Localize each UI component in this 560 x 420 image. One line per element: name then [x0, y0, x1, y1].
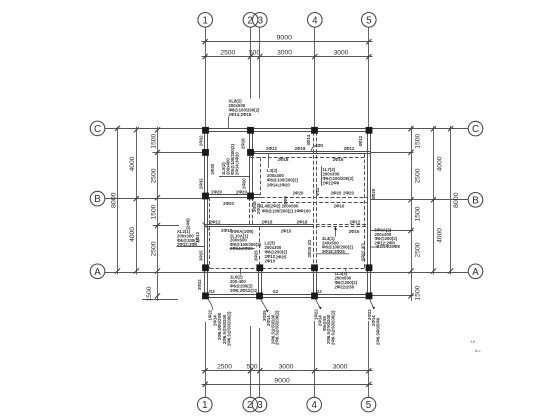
- rebar tag 2phi20 above B beam left: [211, 190, 222, 195]
- svg-text:2500: 2500: [415, 168, 422, 183]
- dim line 8000 left: [110, 126, 120, 275]
- dim line 9000 top: [202, 35, 373, 45]
- annotation block outside right wall with leader: [371, 228, 401, 250]
- svg-text:2Φ32: 2Φ32: [199, 178, 204, 189]
- svg-text:2500: 2500: [150, 168, 157, 183]
- svg-text:4: 4: [311, 400, 317, 411]
- axis circle 2 bottom: [243, 397, 258, 412]
- annotation block bottom strip left: [230, 268, 258, 293]
- axis circle 1 bottom: [198, 397, 213, 412]
- annotation block room 3-4 lower: [265, 241, 288, 264]
- svg-text:3Φ25 3/2: 3Φ25 3/2: [307, 239, 312, 257]
- annotation two-line room 3-4 below B: [260, 204, 312, 214]
- svg-text:2Φ20: 2Φ20: [210, 163, 215, 174]
- tag 3phi25 outside left wall: [199, 250, 204, 261]
- svg-text:3000: 3000: [333, 364, 348, 371]
- svg-text:Φ12: Φ12: [315, 187, 320, 196]
- svg-text:1: 1: [202, 15, 207, 26]
- svg-text:2Φ18: 2Φ18: [240, 138, 245, 149]
- axis line B left: [105, 198, 204, 200]
- column C-1: [202, 127, 209, 134]
- bottom leader group 3: [314, 299, 336, 345]
- hidden beam axis 3 lower: [259, 227, 261, 268]
- axis circle A left: [90, 264, 105, 279]
- column A-3: [256, 264, 263, 271]
- column bottom-3: [256, 293, 263, 300]
- G2 label right: [316, 289, 322, 294]
- svg-text:3000: 3000: [279, 364, 294, 371]
- hidden beam below r1: [251, 157, 367, 159]
- svg-text:4000: 4000: [437, 228, 444, 243]
- svg-text:C: C: [472, 124, 479, 135]
- svg-text:2Φ18: 2Φ18: [262, 219, 273, 224]
- axis line A left: [105, 272, 371, 274]
- extension line axis 1 top: [205, 27, 207, 129]
- axis circle 3 bottom: [252, 397, 267, 412]
- tag 3phi25 3/2 axis4: [307, 239, 312, 257]
- column bottom-5: [366, 293, 373, 300]
- extension line axis 4 top: [314, 27, 316, 129]
- column bottom-1: [202, 293, 209, 300]
- svg-text:2Φ18: 2Φ18: [295, 146, 306, 151]
- extension line r2 left: [153, 225, 180, 227]
- svg-text:2500: 2500: [415, 242, 422, 257]
- svg-text:2Φ20: 2Φ20: [293, 191, 304, 196]
- dim line inner right: [408, 126, 421, 301]
- column A-1: [202, 264, 209, 271]
- axis circle 3 top: [252, 12, 267, 27]
- extension line r1 left: [153, 152, 205, 154]
- svg-text:(2Φ0): (2Φ0): [186, 218, 191, 230]
- svg-text:4Φ14: 4Φ14: [306, 134, 311, 145]
- svg-text:4: 4: [312, 15, 318, 26]
- beam B-axis solid part: [204, 195, 261, 198]
- column C-4: [311, 127, 318, 134]
- annotation block outside left wall: [177, 218, 205, 247]
- svg-text:2: 2: [247, 400, 252, 411]
- hidden beam axis 3 upper: [260, 157, 262, 194]
- wall axis 1 (left): [205, 129, 208, 298]
- svg-text:Φ8@100/200(2) 1ΦΦ100: Φ8@100/200(2) 1ΦΦ100: [262, 209, 311, 214]
- svg-text:A: A: [472, 267, 479, 278]
- axis circle C right: [468, 121, 483, 136]
- beam bottom row: [204, 295, 371, 298]
- svg-text:G2: G2: [209, 289, 215, 294]
- G2 label left: [209, 289, 215, 294]
- annotation block XL8 above plan: [229, 99, 260, 129]
- svg-text:2Φ20: 2Φ20: [236, 190, 247, 195]
- svg-text:1500: 1500: [150, 133, 157, 148]
- svg-text:2Φ6.5@50/200(2): 2Φ6.5@50/200(2): [275, 310, 280, 345]
- annotation block room 4-5: [322, 166, 354, 186]
- annotation beam tag room 1-2: [219, 144, 249, 177]
- svg-text:2Φ18: 2Φ18: [297, 219, 308, 224]
- column A-4: [311, 264, 318, 271]
- dim line segments top: [202, 50, 373, 60]
- rebar tags above r2 beam: [210, 219, 221, 224]
- tag 2phi18 vertical below B axis3b: [256, 203, 261, 214]
- svg-text:3000: 3000: [277, 50, 292, 57]
- svg-text:2Φ12: 2Φ12: [344, 146, 355, 151]
- svg-text:8000: 8000: [453, 192, 460, 208]
- svg-text:2500: 2500: [217, 364, 232, 371]
- hidden beam near right wall: [364, 154, 366, 269]
- tag 4phi14 left of axis4 top: [306, 134, 311, 145]
- svg-text:2Φ12: 2Φ12: [266, 146, 277, 151]
- column C-2: [247, 127, 254, 134]
- rebar tags above r1 beam: [266, 146, 277, 151]
- extension line axis 1 bottom: [205, 322, 207, 397]
- hidden beam A-axis: [204, 268, 368, 270]
- tag 2phi32 outside left wall upper: [199, 135, 204, 146]
- svg-text:2Φ20: 2Φ20: [211, 190, 222, 195]
- svg-text:4Φ2: 4Φ2: [315, 143, 324, 148]
- wall axis 2 upper: [250, 132, 253, 195]
- beam r1 row: [249, 152, 371, 154]
- annotation block center-right with leader: [316, 227, 353, 254]
- axis circle 4 bottom: [307, 397, 322, 412]
- svg-text:4000: 4000: [437, 156, 444, 171]
- column A-5: [366, 264, 373, 271]
- axis line B right: [371, 199, 469, 201]
- svg-text:2Φ6;2Φ12@2: 2Φ6;2Φ12@2: [230, 288, 258, 293]
- beam r2 row: [204, 225, 310, 227]
- extension line axis 3 top: [259, 27, 261, 98]
- extension line bottom-row left: [142, 299, 178, 301]
- bottom leader group 1: [208, 299, 232, 346]
- svg-text:3000: 3000: [334, 50, 349, 57]
- extension line r2 right: [371, 230, 414, 232]
- svg-text:9000: 9000: [277, 35, 293, 42]
- tag 2phi32 outside left wall mid: [199, 178, 204, 189]
- rebar tags below r1 beam: [278, 157, 289, 162]
- svg-text:1500: 1500: [146, 286, 153, 301]
- axis circle A right: [468, 264, 483, 279]
- axis circle 5 top: [362, 12, 377, 27]
- svg-text:9000: 9000: [274, 377, 290, 384]
- wall axis 4 bottom strip: [314, 268, 317, 294]
- tag 5phi22 3/2 right wall: [361, 243, 366, 261]
- svg-text:500: 500: [249, 50, 260, 57]
- tag 3phi22 outside left wall low: [197, 279, 202, 290]
- svg-text:2Φ12: 2Φ12: [210, 219, 221, 224]
- svg-text:2Φ20: 2Φ20: [241, 178, 246, 189]
- annotation block room 1-3 lower: [230, 229, 262, 251]
- svg-text:5Φ22 3/2: 5Φ22 3/2: [361, 243, 366, 261]
- svg-text:1: 1: [202, 400, 207, 411]
- svg-text:1500: 1500: [415, 285, 422, 300]
- hidden beam axis 2 middle: [250, 197, 253, 224]
- svg-text:2Φ22@50: 2Φ22@50: [335, 285, 355, 290]
- rebar tag 2phi20 room45 above B: [331, 191, 342, 196]
- svg-text:2Φ14;2Φ20: 2Φ14;2Φ20: [267, 182, 290, 187]
- extension line axis 2 bottom: [250, 326, 252, 397]
- rebar tags below r2 beam: [221, 228, 232, 233]
- svg-text:2Φ16: 2Φ16: [333, 157, 344, 162]
- extension line r1 right: [371, 152, 414, 154]
- svg-text:3Φ18;2Φ25: 3Φ18;2Φ25: [322, 249, 345, 254]
- annotation block room 2-4 with leader: [267, 154, 298, 188]
- axis circle 2 top: [243, 12, 258, 27]
- extension line axis 5 top: [368, 27, 370, 129]
- svg-text:2500: 2500: [220, 50, 235, 57]
- axis circle B right: [468, 193, 483, 208]
- svg-text:A: A: [94, 267, 101, 278]
- svg-text:1500: 1500: [415, 206, 422, 221]
- svg-text:2Φ6.5Φ0/5Φ0: 2Φ6.5Φ0/5Φ0: [375, 317, 380, 345]
- svg-text:2Φ10: 2Φ10: [265, 258, 276, 263]
- svg-text:2Φ32: 2Φ32: [199, 135, 204, 146]
- svg-text:4Φ12: 4Φ12: [358, 135, 363, 146]
- svg-text:1500: 1500: [415, 133, 422, 148]
- axis circle B left: [90, 191, 105, 206]
- svg-text:500: 500: [247, 364, 258, 371]
- svg-text:4Φ25: 4Φ25: [371, 188, 376, 199]
- svg-text:2Φ14;2Φ18: 2Φ14;2Φ18: [229, 112, 252, 117]
- svg-text:2Φ18: 2Φ18: [256, 203, 261, 214]
- rebar tag 2phi20 below B beam: [223, 201, 234, 206]
- svg-text:B: B: [94, 194, 101, 205]
- svg-text:3Φ25: 3Φ25: [199, 250, 204, 261]
- svg-text:2Φ20: 2Φ20: [343, 191, 354, 196]
- svg-text:2Φ20: 2Φ20: [331, 191, 342, 196]
- svg-text:5: 5: [366, 400, 372, 411]
- tag 3phi18 vertical below B axis3: [252, 201, 257, 212]
- svg-text:2Φ6.5@50/200(2): 2Φ6.5@50/200(2): [227, 311, 232, 346]
- svg-text:B2/5Φ20Φ8: B2/5Φ20Φ8: [377, 244, 401, 249]
- bottom leader group 4: [367, 299, 380, 345]
- dim line 4000 right: [431, 126, 444, 275]
- svg-text:G2: G2: [273, 289, 279, 294]
- tag 3phi25 right flank: [254, 250, 259, 261]
- rebar tag 2phi20 left wall room12: [210, 163, 215, 174]
- svg-text:8-c: 8-c: [475, 348, 480, 353]
- svg-text:3Φ25: 3Φ25: [254, 250, 259, 261]
- axis line C right: [371, 128, 469, 130]
- leader arc at r1 axis2 junction: [250, 152, 256, 158]
- extension line bottom-row right: [372, 295, 414, 297]
- tag 4phi25 outside right wall: [371, 188, 376, 199]
- beam C-axis (top): [204, 129, 371, 132]
- svg-text:2Φ6.5@50/200(2): 2Φ6.5@50/200(2): [330, 310, 335, 345]
- extension line axis 2 top: [250, 27, 252, 98]
- svg-text:3Φ22: 3Φ22: [197, 279, 202, 290]
- extension line axis 3 bottom: [259, 328, 261, 397]
- tag 2phi16 below B right: [334, 204, 345, 209]
- wall axis 5 (right): [368, 129, 371, 298]
- rebar tag 2phi20 above B beam x3: [293, 191, 304, 196]
- svg-text:3: 3: [257, 400, 263, 411]
- dim line 4000 left: [129, 127, 139, 275]
- tag phi12 axis4 near B: [315, 187, 320, 196]
- hidden beam axis 4: [314, 132, 317, 268]
- svg-text:2Φ20: 2Φ20: [223, 201, 234, 206]
- rebar tag 2phi18 axis2 room12: [240, 138, 245, 149]
- svg-text:2500: 2500: [150, 241, 157, 256]
- svg-text:4000: 4000: [129, 156, 136, 171]
- column bottom-4: [311, 293, 318, 300]
- svg-text:2Φ18: 2Φ18: [278, 157, 289, 162]
- svg-text:C: C: [94, 124, 101, 135]
- leader arc at r1 axis4 junction: [311, 146, 317, 152]
- hidden beam near left wall: [209, 197, 211, 268]
- hidden beam r2 extension: [310, 225, 366, 227]
- tag 2phi25 above A line: [276, 255, 287, 260]
- G2 label mid: [273, 289, 279, 294]
- svg-text:2Φ25: 2Φ25: [276, 255, 287, 260]
- svg-text:2Φ16: 2Φ16: [334, 204, 345, 209]
- svg-text:B: B: [472, 195, 479, 206]
- beam B-axis hidden part: [261, 198, 368, 203]
- faint signature marks right: [470, 339, 480, 353]
- column r1-2: [247, 149, 254, 156]
- column r1-1: [202, 149, 209, 156]
- leader to 1phi12: [203, 223, 210, 231]
- tag 5phi8 vertical near B: [283, 196, 288, 205]
- axis circle 1 top: [198, 12, 213, 27]
- svg-text:4000: 4000: [129, 227, 136, 242]
- axis circle C left: [90, 121, 105, 136]
- column B-1: [202, 193, 209, 200]
- svg-text:G2: G2: [316, 289, 322, 294]
- svg-text:2Φ14;3Φ20: 2Φ14;3Φ20: [235, 152, 240, 175]
- bottom leader group 2: [261, 299, 280, 345]
- axis line C left: [105, 128, 205, 130]
- wall axis 3 bottom strip: [259, 268, 262, 294]
- axis circle 4 top: [308, 12, 323, 27]
- svg-text:2: 2: [247, 15, 252, 26]
- dim line inner left: [146, 127, 160, 302]
- dim line segments bottom: [202, 364, 373, 374]
- rebar tag 2phi20 axis2 room12 low: [241, 178, 246, 189]
- tag 4phi2 right of axis4 top: [315, 143, 324, 148]
- svg-text:2Φ10: 2Φ10: [281, 229, 292, 234]
- svg-text:2Φ16: 2Φ16: [349, 229, 360, 234]
- rebar tag 2phi20 above B beam mid: [236, 190, 247, 195]
- svg-text:2Φ12Φ9: 2Φ12Φ9: [323, 181, 340, 186]
- column B-2: [247, 193, 254, 200]
- svg-text:8000: 8000: [110, 192, 117, 208]
- extension line axis 4 bottom: [314, 321, 316, 397]
- rebar tag 2phi20 above B beam x4: [343, 191, 354, 196]
- annotation block bottom strip right: [335, 268, 358, 289]
- svg-text:2Φ12: 2Φ12: [350, 219, 361, 224]
- svg-text:5: 5: [366, 15, 372, 26]
- axis line A right: [371, 272, 469, 274]
- dim line 9000 bottom: [202, 377, 373, 387]
- axis circle 5 bottom: [361, 397, 376, 412]
- extension line axis 5 bottom: [368, 321, 370, 397]
- tag 4phi12 right room top: [358, 135, 363, 146]
- tag 1phi12 outside left wall: [195, 231, 200, 242]
- svg-text:3: 3: [258, 15, 264, 26]
- svg-text:J.E: J.E: [470, 339, 476, 344]
- column C-5: [366, 127, 373, 134]
- dim line 8000 right: [448, 126, 460, 275]
- svg-text:1500: 1500: [150, 204, 157, 219]
